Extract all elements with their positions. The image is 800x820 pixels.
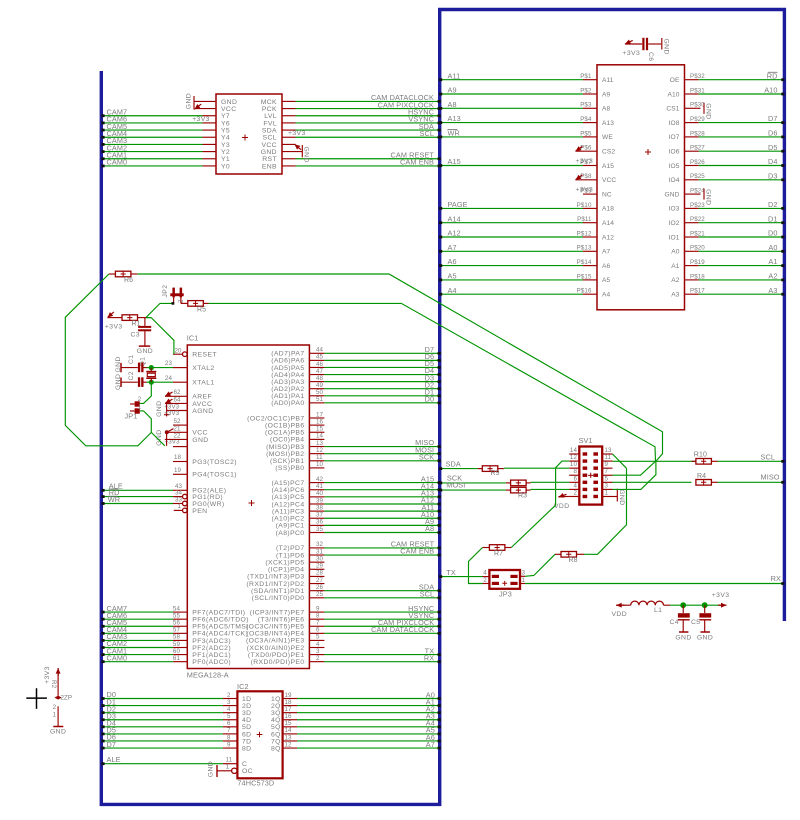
svg-text:5D: 5D: [242, 724, 252, 731]
svg-text:P$22: P$22: [690, 216, 705, 223]
svg-text:CAM ENB: CAM ENB: [400, 158, 434, 167]
svg-text:SDA: SDA: [446, 460, 461, 469]
svg-text:(ICP1)PD4: (ICP1)PD4: [268, 567, 304, 574]
SV1 left pin 12 lead: [569, 460, 579, 462]
IC1 pin 61 lead: [173, 661, 187, 663]
wire A11 from IC1 to bus: [324, 510, 439, 512]
svg-text:15: 15: [316, 426, 324, 433]
svg-text:37: 37: [316, 512, 324, 519]
svg-text:23: 23: [165, 360, 173, 367]
wire D5 from memory IC to bus: [699, 150, 783, 152]
svg-text:PF4(ADC4/TCK): PF4(ADC4/TCK): [192, 631, 248, 638]
svg-text:+3V3: +3V3: [192, 116, 210, 123]
capacitor C5: [704, 605, 706, 613]
svg-text:1Q: 1Q: [271, 696, 281, 703]
wire A3 from memory IC to bus: [699, 293, 783, 295]
SV1 pad pin 3: [593, 488, 598, 491]
bus junction markers left bus: [101, 114, 104, 117]
IC1 pin 60 lead: [173, 654, 187, 656]
wire A11 from bus to memory IC: [442, 79, 584, 81]
svg-text:42: 42: [316, 476, 324, 483]
svg-text:3: 3: [605, 482, 609, 489]
ground symbol at AGND: [166, 404, 168, 417]
svg-text:A5: A5: [448, 272, 457, 281]
svg-text:A9: A9: [448, 86, 457, 95]
wire CAM0 to IC1 PF0: [104, 661, 174, 663]
IC1 pin 34 PG1 lead with bubble: [183, 494, 188, 499]
svg-text:4: 4: [573, 482, 577, 489]
wire XTAL2: [151, 367, 173, 369]
svg-text:4: 4: [227, 706, 231, 713]
svg-text:9: 9: [605, 461, 609, 468]
svg-text:PG3(TOSC2): PG3(TOSC2): [192, 459, 237, 466]
svg-text:(TXD0/PDO)PE1: (TXD0/PDO)PE1: [248, 652, 305, 659]
svg-text:A9: A9: [602, 91, 610, 98]
memory IC pin lead P$13: [583, 250, 597, 252]
wire A14 from IC1 to bus: [324, 489, 439, 491]
wire L1 to +3V3: [664, 604, 671, 606]
svg-text:P$5: P$5: [580, 130, 592, 137]
camera connector GND pin lead: [194, 100, 216, 102]
IC2 pin 13 lead: [283, 740, 297, 742]
svg-text:GND: GND: [156, 401, 163, 417]
junction diamond R2: [55, 696, 62, 700]
SV1 right pin 9 lead: [602, 467, 612, 469]
svg-text:19: 19: [285, 692, 293, 699]
svg-text:6: 6: [227, 720, 231, 727]
memory IC pin lead P$11: [583, 222, 597, 224]
svg-text:13: 13: [285, 734, 293, 741]
svg-text:CS2: CS2: [602, 149, 615, 156]
svg-text:P$31: P$31: [690, 87, 705, 94]
svg-text:8Q: 8Q: [271, 745, 281, 752]
wire D6 from IC1 to bus: [324, 359, 439, 361]
svg-text:PG4(TOSC1): PG4(TOSC1): [192, 472, 237, 479]
SV1 right pin 7 lead: [602, 474, 612, 476]
svg-text:A10: A10: [764, 86, 777, 95]
svg-text:GND: GND: [137, 348, 153, 355]
ground bar at C1: [120, 363, 122, 372]
svg-text:9: 9: [227, 741, 231, 748]
IC2 pin 3 lead: [223, 705, 237, 707]
wire R3 to SV1 pin 4: [531, 488, 570, 490]
svg-text:GND: GND: [192, 437, 208, 444]
svg-text:PCK: PCK: [262, 106, 277, 113]
wire D5 from IC1 to bus: [324, 366, 439, 368]
IC1 pin 22 GND lead: [165, 438, 188, 440]
svg-text:(MOSI)PB2: (MOSI)PB2: [266, 451, 304, 458]
svg-text:P$1: P$1: [580, 73, 592, 80]
IC1 pin 11 lead: [309, 460, 324, 462]
svg-text:(XCK0/AIN0)PE2: (XCK0/AIN0)PE2: [247, 645, 305, 652]
svg-text:SCL: SCL: [761, 453, 776, 462]
svg-text:55: 55: [173, 612, 181, 619]
junction dot C4: [680, 602, 686, 608]
memory IC pin lead P$5: [583, 136, 597, 138]
IC1 pin 30 lead: [309, 561, 324, 563]
IC1 pin 36 lead: [309, 524, 324, 526]
IC1 pin 40 lead: [309, 496, 324, 498]
memory IC pin lead P$16: [583, 293, 597, 295]
svg-text:4: 4: [316, 641, 320, 648]
IC1 pin 55 lead: [173, 618, 187, 620]
svg-text:JP2: JP2: [162, 285, 169, 298]
svg-text:1: 1: [178, 503, 182, 510]
svg-text:(T1)PD6: (T1)PD6: [276, 552, 304, 559]
camera connector VCC right lead: [282, 143, 296, 145]
wire CAM6 to IC1 PF6: [104, 618, 174, 620]
IC2 pin 18 lead: [283, 705, 297, 707]
svg-text:D7: D7: [768, 114, 778, 123]
svg-text:P$23: P$23: [690, 202, 705, 209]
svg-text:D0: D0: [425, 395, 435, 404]
svg-text:P$16: P$16: [577, 288, 592, 295]
svg-text:C: C: [242, 761, 247, 768]
SV1 pad pin 8: [583, 474, 588, 477]
svg-text:D6: D6: [768, 129, 778, 138]
svg-text:+3V3: +3V3: [288, 130, 306, 137]
svg-text:A8: A8: [602, 106, 610, 113]
capacitor C2: [121, 381, 138, 383]
svg-text:R4: R4: [697, 473, 706, 480]
svg-text:A11: A11: [448, 71, 461, 80]
svg-text:74HC573D: 74HC573D: [237, 779, 274, 788]
svg-text:R9: R9: [491, 470, 500, 477]
camera connector pin lead SDA: [282, 129, 296, 131]
svg-text:C6: C6: [647, 52, 654, 62]
wire D3 from memory IC to bus: [699, 179, 783, 181]
wire D7 from memory IC to bus: [699, 122, 783, 124]
IC1 pin 58 lead: [173, 639, 187, 641]
ground symbol at memory pin P$24: [703, 189, 705, 200]
svg-text:2: 2: [227, 692, 231, 699]
IC1 pin 24 XTAL1 lead: [173, 381, 187, 383]
svg-text:A0: A0: [768, 243, 777, 252]
wire from R6 down left loop to IC1 ground: [65, 274, 165, 446]
wire CAM3 to IC1 PF3: [104, 639, 174, 641]
wire A4 from IC2 to bus: [297, 726, 440, 728]
SV1 pad pin 4: [583, 488, 588, 491]
ground bar at C4: [679, 631, 688, 633]
svg-text:AGND: AGND: [192, 408, 213, 415]
IC1 pin 45 lead: [309, 359, 324, 361]
svg-text:Y2: Y2: [221, 149, 230, 156]
svg-text:10: 10: [316, 461, 324, 468]
camera connector pin Y2 lead: [203, 151, 217, 153]
svg-text:(XCK1)PD5: (XCK1)PD5: [265, 559, 304, 566]
ground symbol at SV1 pin 1: [613, 496, 618, 498]
memory IC pin lead P$31: [685, 93, 699, 95]
camera connector pin lead SCL: [282, 136, 296, 138]
svg-text:12: 12: [316, 447, 324, 454]
IC1 pin 53 lead: [173, 446, 187, 448]
junction dot XTAL2: [149, 365, 154, 370]
svg-text:(SCK)PB1: (SCK)PB1: [270, 458, 305, 465]
svg-text:32: 32: [316, 541, 324, 548]
SV1 pad pin 11: [593, 459, 598, 462]
svg-text:GND: GND: [50, 728, 66, 735]
svg-text:GND: GND: [697, 634, 713, 641]
svg-text:C5: C5: [691, 619, 701, 626]
IC1 pin 17 lead: [309, 417, 324, 419]
svg-text:IO7: IO7: [669, 134, 680, 141]
svg-text:A11: A11: [602, 77, 614, 84]
svg-text:6D: 6D: [242, 731, 252, 738]
svg-text:2D: 2D: [242, 703, 252, 710]
svg-text:R2: R2: [50, 680, 57, 689]
svg-text:GND: GND: [705, 189, 712, 205]
wire CAM2 to IC1 PF2: [104, 647, 174, 649]
svg-text:(A11)PC3: (A11)PC3: [272, 508, 305, 515]
IC1 MEGA128-A body: [187, 345, 309, 669]
wire D1 from memory IC to bus: [699, 222, 783, 224]
svg-text:A1: A1: [768, 257, 777, 266]
camera connector pin lead CAM RESET: [282, 158, 296, 160]
ground bar bottom-left: [53, 726, 63, 728]
svg-text:13: 13: [316, 440, 324, 447]
svg-text:A14: A14: [602, 220, 614, 227]
svg-text:GND: GND: [705, 103, 712, 119]
svg-text:R5: R5: [197, 306, 206, 313]
svg-text:18: 18: [285, 699, 293, 706]
wire JP1 pin2 to XTAL1 net: [140, 382, 152, 403]
svg-text:P$19: P$19: [690, 259, 705, 266]
svg-text:+3V3: +3V3: [44, 666, 51, 684]
svg-text:IO3: IO3: [669, 206, 680, 213]
svg-text:31: 31: [316, 548, 324, 555]
svg-text:P$10: P$10: [577, 202, 592, 209]
IC1 pin 57 lead: [173, 632, 187, 634]
IC1 pin 48 lead: [309, 381, 324, 383]
svg-text:CS1: CS1: [666, 106, 679, 113]
svg-text:A12: A12: [602, 234, 614, 241]
svg-text:(A13)PC5: (A13)PC5: [271, 494, 304, 501]
wire A13 from IC1 to bus: [324, 496, 439, 498]
wire HSYNC from IC1 to bus: [324, 611, 439, 613]
IC1 pin 35 lead: [309, 532, 324, 534]
wire CAM DATACLOCK from IC1 to bus: [324, 632, 439, 634]
ground symbol at IC1 GND pin: [166, 433, 168, 446]
SV1 pad pin 2: [583, 495, 588, 498]
svg-text:L1: L1: [654, 607, 662, 614]
wire A6 from bus to memory IC: [442, 265, 584, 267]
svg-text:(A15)PC7: (A15)PC7: [271, 480, 304, 487]
svg-text:CAM ENB: CAM ENB: [400, 547, 434, 556]
ground bar at C2: [120, 378, 122, 388]
wire ALE to IC1: [104, 489, 174, 491]
svg-text:Y0: Y0: [221, 163, 230, 170]
svg-text:(RXD0/PDI)PE0: (RXD0/PDI)PE0: [251, 659, 305, 666]
wire SDA to bus: [296, 129, 440, 131]
svg-text:Y1: Y1: [221, 156, 230, 163]
svg-text:A8: A8: [448, 100, 457, 109]
wire CAM7 to IC1 PF7: [104, 611, 174, 613]
svg-text:P$11: P$11: [577, 216, 592, 223]
IC1 pin 52 lead: [173, 424, 187, 426]
wire D0 from memory IC to bus: [699, 236, 783, 238]
svg-text:(OC2/OC1C)PB7: (OC2/OC1C)PB7: [247, 415, 304, 422]
svg-text:JP1: JP1: [125, 411, 138, 420]
svg-text:(T2)PD7: (T2)PD7: [276, 545, 304, 552]
SV1 pad pin 9: [593, 466, 598, 469]
IC1 pin 28 lead: [309, 575, 324, 577]
IC1 pin 7 lead: [309, 625, 324, 627]
+3V3 supply arrow at memory VCC: [576, 175, 583, 180]
wire CAM4 to camera connector: [104, 136, 203, 138]
IC1 pin 47 lead: [309, 374, 324, 376]
IC1 pin 51 lead: [309, 402, 324, 404]
wire SV1 pin 11 junction row to R10: [613, 460, 696, 462]
wire vertical to R8: [584, 468, 627, 554]
IC1 pin 50 lead: [309, 395, 324, 397]
svg-text:(AD5)PA5: (AD5)PA5: [271, 365, 304, 372]
svg-text:(OC3B/INT4)PE4: (OC3B/INT4)PE4: [246, 631, 304, 638]
SV1 left pin 10 lead: [569, 467, 579, 469]
svg-text:(AD7)PA7: (AD7)PA7: [271, 351, 304, 358]
IC1 pin 1 PEN lead with bubble: [183, 508, 188, 513]
bus junction markers right bus: [781, 78, 784, 81]
memory IC pin lead P$15: [583, 279, 597, 281]
wire A3 from IC2 to bus: [297, 719, 440, 721]
IC1 pin 43 PG2 lead: [173, 489, 187, 491]
wire D6 from memory IC to bus: [699, 136, 783, 138]
resistor R4: [696, 480, 712, 486]
resistor R3: [511, 487, 526, 493]
svg-text:46: 46: [316, 361, 324, 368]
+3V3 supply arrow at AREF: [165, 392, 172, 396]
camera connector VCC pin lead: [196, 108, 216, 110]
svg-text:8: 8: [573, 468, 577, 475]
ground bar at C3: [139, 345, 150, 347]
svg-text:6Q: 6Q: [271, 731, 281, 738]
IC1 pin 6 lead: [309, 632, 324, 634]
svg-text:SDA: SDA: [262, 127, 277, 134]
svg-text:RX: RX: [771, 574, 781, 583]
wire SV1 pin 13 to R8 vertical: [613, 454, 627, 468]
memory IC pin lead P$25: [685, 179, 699, 181]
svg-text:P$18: P$18: [690, 273, 705, 280]
svg-text:RST: RST: [262, 156, 277, 163]
svg-text:A3: A3: [768, 286, 777, 295]
wire A9 from bus to memory IC: [442, 93, 584, 95]
svg-text:19: 19: [174, 467, 182, 474]
memory IC pin lead P$10: [583, 207, 597, 209]
wire WR from bus to memory IC: [442, 136, 584, 138]
wire A4 from bus to memory IC: [442, 293, 584, 295]
memory IC pin lead P$18: [685, 279, 699, 281]
svg-text:P$29: P$29: [690, 116, 705, 123]
svg-text:16: 16: [316, 418, 324, 425]
svg-text:PF1(ADC1): PF1(ADC1): [192, 652, 231, 659]
IC1 pin 25 lead: [309, 597, 324, 599]
pin header JP3: [489, 570, 520, 589]
SV1 right pin 13 lead: [602, 453, 612, 455]
camera connector pin Y6 lead: [203, 122, 217, 124]
svg-text:GND: GND: [663, 39, 670, 55]
svg-text:(RXD1/INT2)PD2: (RXD1/INT2)PD2: [246, 581, 304, 588]
wire A0 from memory IC to bus: [699, 250, 783, 252]
svg-text:(A12)PC4: (A12)PC4: [271, 501, 304, 508]
svg-text:PF5(ADC5/TMS): PF5(ADC5/TMS): [192, 624, 249, 631]
wire A5 from bus to memory IC: [442, 279, 584, 281]
svg-text:P$3: P$3: [580, 102, 592, 109]
wire A2 from memory IC to bus: [699, 279, 783, 281]
IC1 pin 15 lead: [309, 431, 324, 433]
wire from JP1 pin 1 to loop junction: [144, 411, 152, 433]
ground symbol at memory pin P$30: [703, 103, 705, 114]
IC1 pin 27 lead: [309, 583, 324, 585]
svg-text:D1: D1: [768, 214, 778, 223]
camera connector pin Y3 lead: [203, 143, 217, 145]
resistor R2 upper: [511, 480, 526, 486]
svg-text:P$17: P$17: [690, 288, 705, 295]
svg-text:SCK: SCK: [419, 452, 434, 461]
svg-text:36: 36: [316, 519, 324, 526]
svg-text:(A8)PC0: (A8)PC0: [276, 530, 305, 537]
wire R6 net across to SV1 junction: [137, 274, 662, 461]
svg-text:1: 1: [53, 712, 57, 719]
svg-text:P$9: P$9: [580, 188, 592, 195]
wire MISO from R4 to bus: [718, 481, 783, 483]
svg-text:D5: D5: [768, 143, 778, 152]
wire PAGE from bus to memory IC: [442, 207, 584, 209]
svg-text:Y6: Y6: [221, 120, 230, 127]
svg-text:40: 40: [316, 490, 324, 497]
camera connector pin Y0 lead: [203, 165, 217, 167]
resistor R5: [188, 301, 204, 307]
IC2 pin 12 lead: [283, 747, 297, 749]
svg-text:7Q: 7Q: [271, 738, 281, 745]
IC1 pin 12 lead: [309, 453, 324, 455]
wire CAM ENB to bus: [296, 165, 440, 167]
wire SDA from bus to R9: [442, 468, 478, 470]
svg-text:44: 44: [316, 347, 324, 354]
svg-text:(T3/INT6)PE6: (T3/INT6)PE6: [258, 616, 305, 623]
svg-text:(SDA/INT1)PD1: (SDA/INT1)PD1: [251, 588, 305, 595]
camera connector pin lead CAM DATACLOCK: [282, 100, 296, 102]
svg-text:A5: A5: [602, 277, 610, 284]
wire A5 from IC2 to bus: [297, 733, 440, 735]
svg-text:GND: GND: [186, 93, 193, 109]
svg-text:SCL: SCL: [420, 590, 435, 599]
camera connector pin Y4 lead: [203, 136, 217, 138]
svg-text:11: 11: [316, 454, 323, 461]
svg-text:20: 20: [175, 347, 183, 354]
svg-text:6: 6: [316, 627, 320, 634]
wire R5 net across to SV1 junction: [209, 303, 656, 461]
svg-text:D0: D0: [768, 229, 778, 238]
svg-text:VCC: VCC: [261, 142, 277, 149]
SV1 left pin 4 lead: [569, 488, 579, 490]
SV1 right pin 1 lead: [602, 495, 612, 497]
svg-text:IO1: IO1: [669, 234, 680, 241]
IC1 pin 64 AVCC lead: [165, 402, 187, 404]
svg-text:SCL: SCL: [263, 135, 277, 142]
svg-text:17: 17: [285, 706, 293, 713]
svg-text:(SCL/INT0)PD0: (SCL/INT0)PD0: [252, 595, 305, 602]
wire A8 from bus to memory IC: [442, 107, 584, 109]
svg-text:C4: C4: [670, 619, 680, 626]
IC2 pin 15 lead: [283, 726, 297, 728]
svg-text:P$32: P$32: [690, 73, 705, 80]
wire WR to IC1: [104, 503, 174, 505]
IC1 pin 19 PG4 lead: [173, 473, 187, 475]
wire A14 from bus to memory IC: [442, 222, 584, 224]
memory IC pin lead P$2: [583, 93, 597, 95]
memory IC pin lead P$27: [685, 150, 699, 152]
svg-text:A2: A2: [768, 272, 777, 281]
IC2 74HC573 body: [237, 691, 282, 778]
